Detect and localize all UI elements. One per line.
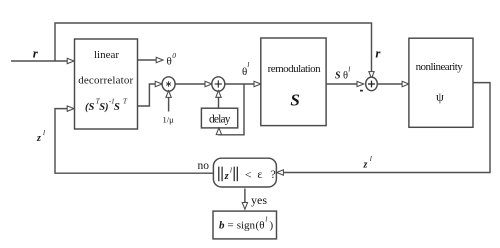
wire: r input: [11, 60, 68, 62]
multiplier node: [162, 77, 175, 91]
arrowhead into nonlinearity: [402, 81, 409, 86]
svg-text:0: 0: [172, 51, 176, 60]
arrowhead into multiplier: [155, 81, 162, 86]
arrowhead into adder1: [205, 81, 212, 86]
svg-text:yes: yes: [251, 193, 267, 207]
wire: 1/mu input: [168, 97, 170, 111]
svg-text:l: l: [43, 128, 45, 137]
svg-text:l: l: [348, 65, 350, 74]
svg-text:S: S: [290, 91, 299, 110]
wire: theta0 output: [138, 59, 157, 61]
arrowhead theta0: [156, 57, 163, 62]
svg-text:S): S): [99, 102, 108, 113]
svg-text:S: S: [335, 70, 341, 81]
svg-text:(S: (S: [85, 102, 94, 113]
arrowhead into decorrelator (r): [67, 58, 74, 63]
wire: no branch back to decorrelator: [55, 109, 213, 174]
arrowhead into multiplier bottom: [166, 91, 171, 98]
delay block: [201, 108, 237, 128]
arrowhead into decorrelator (z feedback): [67, 106, 74, 111]
svg-text:l: l: [230, 165, 232, 174]
svg-text:l: l: [370, 154, 372, 163]
wire: nonlinearity output feedback (z^l): [283, 83, 490, 173]
svg-text:no: no: [198, 160, 210, 172]
wire: remodulation to adder2: [326, 83, 357, 85]
arrowhead into adder2 from top: [369, 72, 374, 79]
arrowhead into remodulation: [254, 81, 261, 86]
svg-text:1/μ: 1/μ: [163, 115, 175, 125]
svg-text:z: z: [224, 171, 230, 182]
svg-text:sign: sign: [237, 219, 256, 231]
svg-text:=: =: [228, 219, 234, 231]
adder2: [366, 77, 378, 91]
svg-text:): ): [270, 219, 274, 231]
svg-text:linear: linear: [94, 49, 119, 61]
svg-text:θ: θ: [259, 219, 264, 231]
svg-text:z: z: [36, 133, 41, 144]
wire: yes branch down: [244, 189, 246, 203]
decision box ||z^l|| < eps ?: [213, 158, 276, 187]
svg-text:z: z: [363, 160, 368, 171]
svg-text:decorrelator: decorrelator: [78, 74, 133, 86]
svg-text:<: <: [245, 168, 252, 182]
svg-text:θ: θ: [167, 56, 172, 68]
minus sign at adder2: [360, 90, 363, 92]
block: b = sign(theta^l): [213, 211, 277, 239]
arrowhead into decision box right: [277, 170, 284, 175]
svg-text:l: l: [265, 215, 267, 224]
svg-text:l: l: [247, 60, 249, 69]
wire: adder1 to remodulation: [225, 83, 255, 85]
svg-text:b: b: [219, 219, 225, 231]
wire: r branch up and across top: [55, 23, 372, 72]
nonlinearity block: [409, 38, 473, 127]
wire: delay to adder1: [218, 97, 220, 108]
block: linear decorrelator: [75, 39, 138, 129]
svg-text:ψ: ψ: [436, 90, 444, 104]
arrowhead into b box: [242, 203, 247, 210]
arrowhead into delay bottom: [216, 128, 221, 135]
adder1: [212, 77, 225, 91]
arrowhead into adder2: [357, 81, 364, 86]
svg-text:?: ?: [271, 169, 276, 181]
wire: branch from theta l down into delay: [219, 84, 244, 135]
svg-text:ε: ε: [257, 167, 262, 181]
svg-text:delay: delay: [209, 113, 231, 125]
wire: decorrelator lower output to multiplier: [138, 84, 156, 106]
wire: adder2 to nonlinearity: [377, 83, 403, 85]
remodulation block: [261, 38, 326, 126]
arrowhead into adder1 bottom: [216, 91, 221, 98]
wire: multiplier to adder1: [175, 83, 205, 85]
svg-text:S: S: [114, 102, 120, 113]
svg-text:nonlinearity: nonlinearity: [416, 61, 464, 73]
svg-text:remodulation: remodulation: [268, 63, 322, 75]
